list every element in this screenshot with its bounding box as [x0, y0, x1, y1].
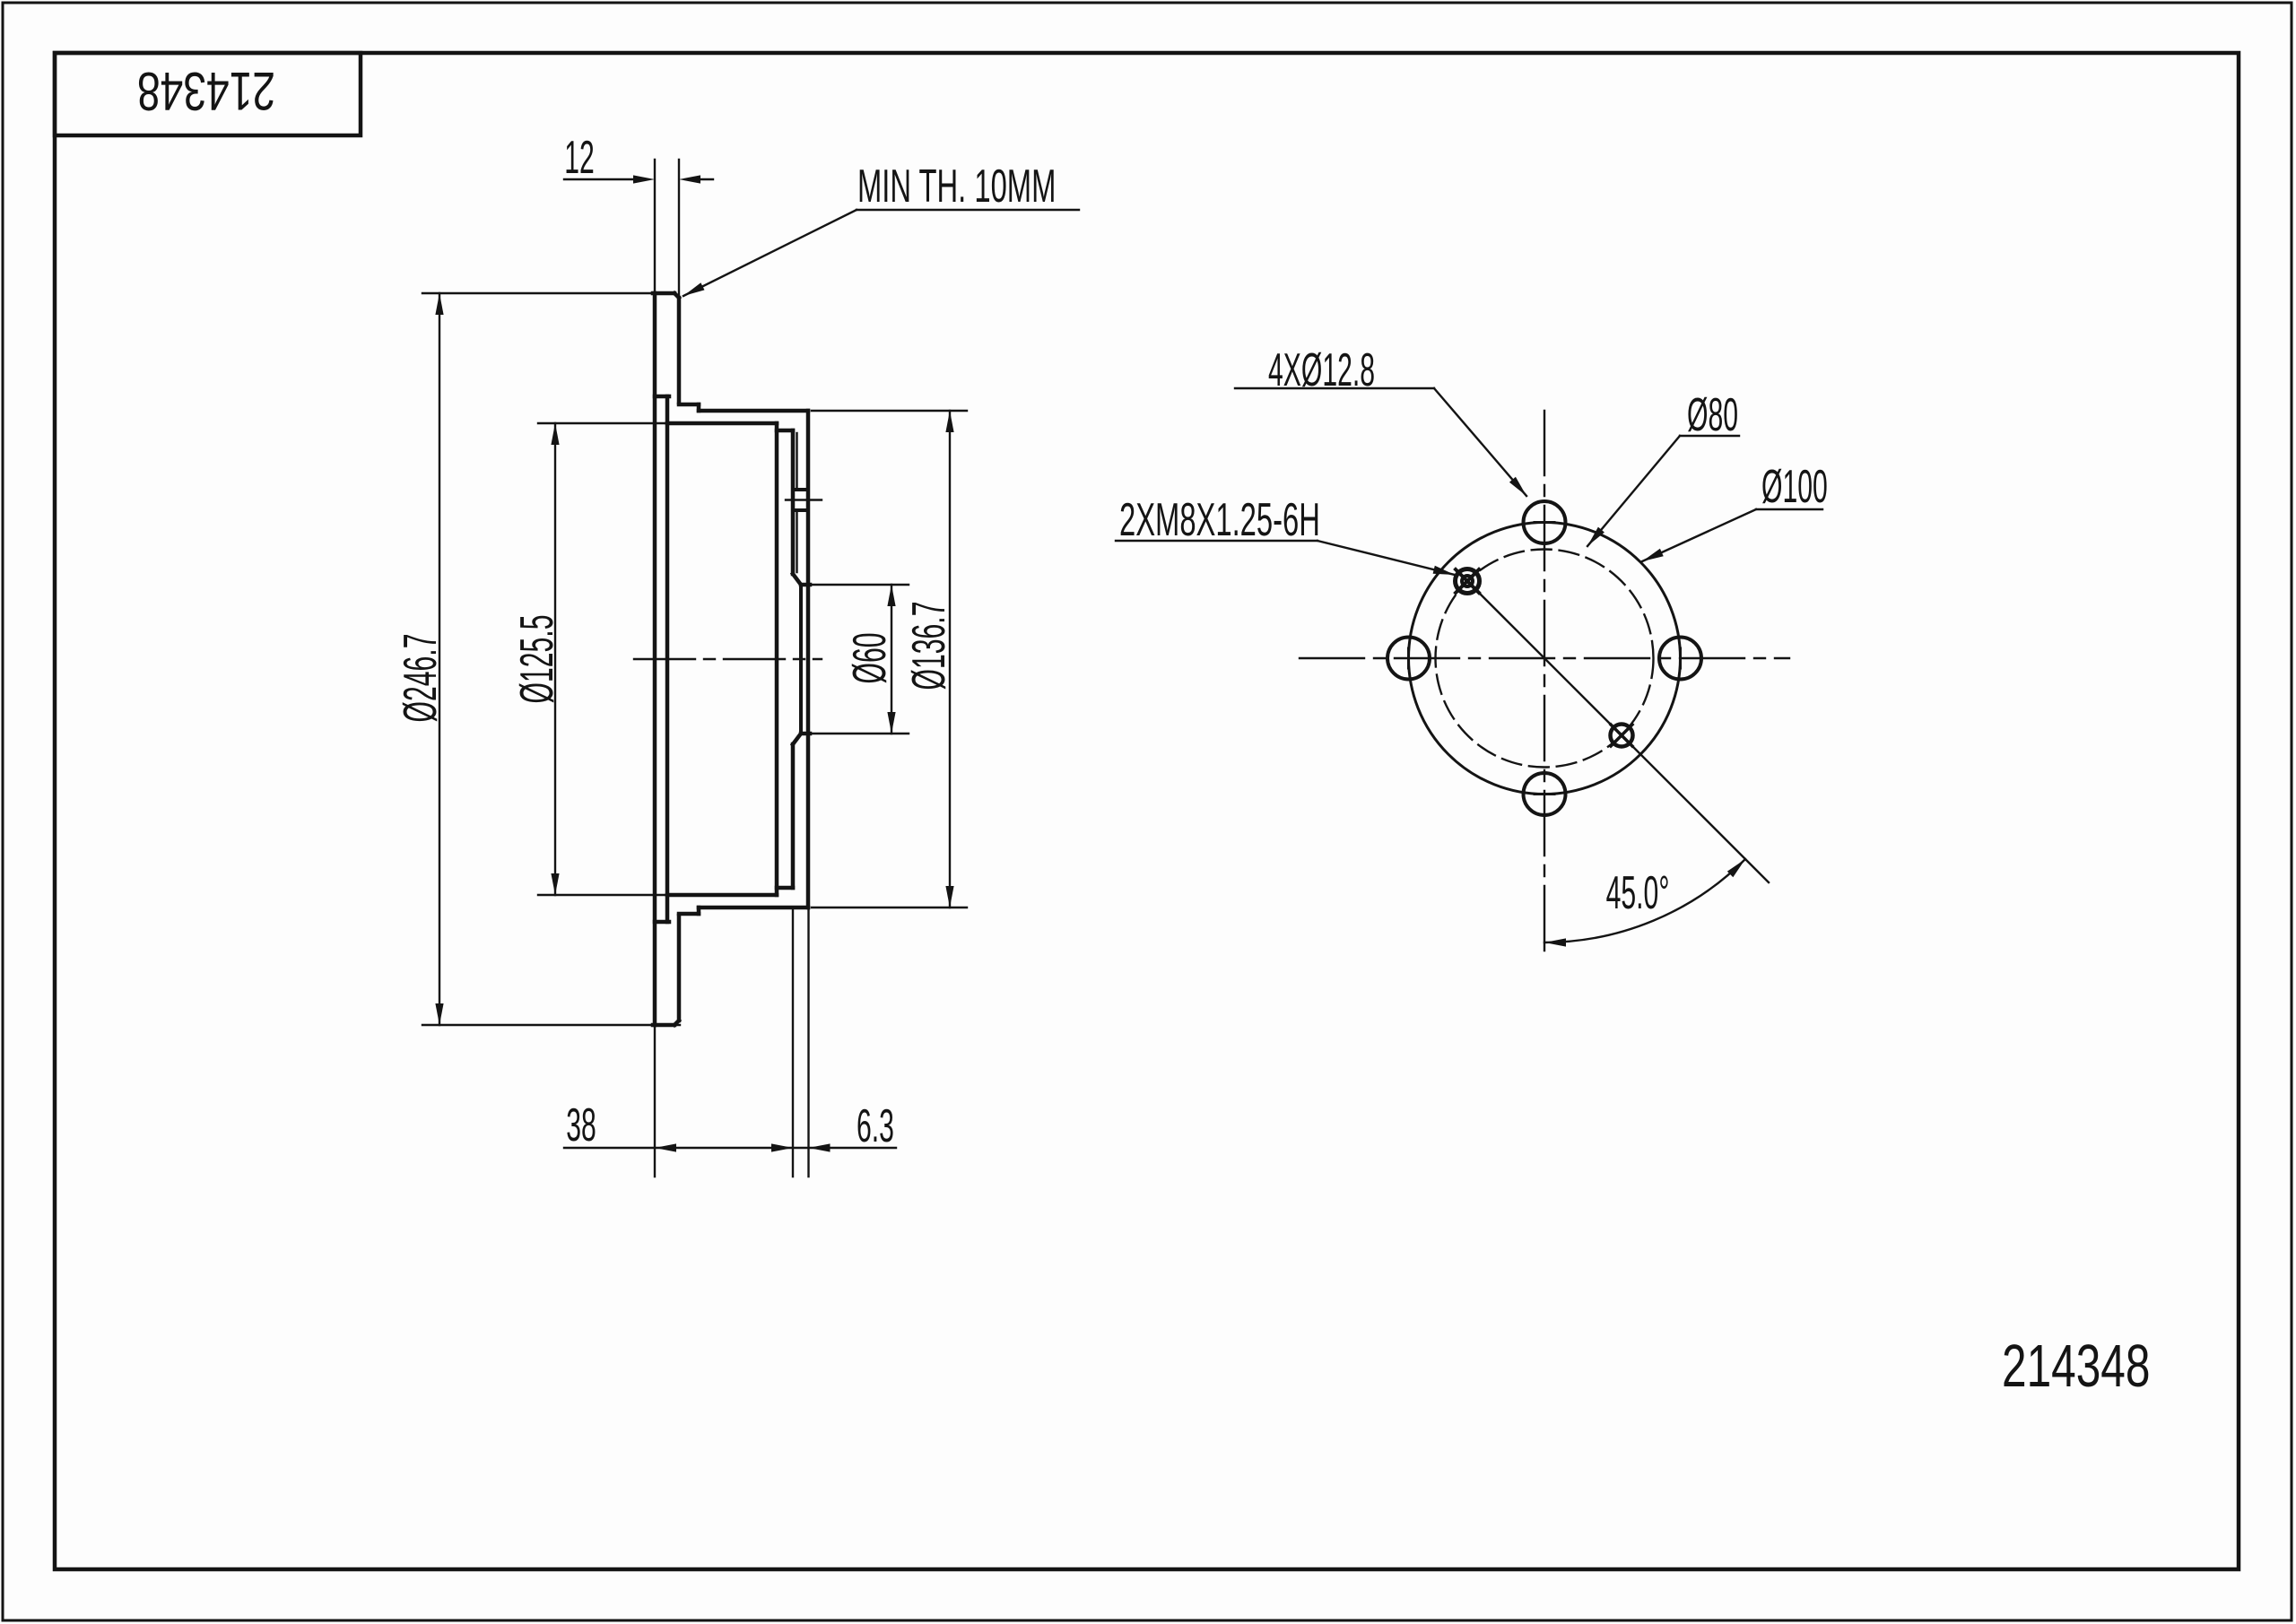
svg-text:Ø136.7: Ø136.7: [904, 602, 955, 690]
svg-text:6.3: 6.3: [857, 1101, 894, 1152]
svg-text:45.0°: 45.0°: [1606, 868, 1670, 919]
svg-text:214348: 214348: [2002, 1333, 2150, 1400]
svg-text:Ø246.7: Ø246.7: [396, 634, 447, 723]
svg-text:214348: 214348: [137, 61, 275, 120]
svg-text:Ø100: Ø100: [1761, 462, 1828, 513]
svg-text:2XM8X1.25-6H: 2XM8X1.25-6H: [1119, 495, 1320, 546]
svg-text:Ø125.5: Ø125.5: [512, 615, 563, 704]
svg-text:38: 38: [566, 1100, 596, 1151]
svg-text:Ø80: Ø80: [1687, 390, 1738, 441]
svg-text:Ø60: Ø60: [845, 632, 896, 683]
svg-text:12: 12: [564, 133, 595, 184]
svg-text:MIN TH. 10MM: MIN TH. 10MM: [857, 161, 1056, 213]
svg-text:4XØ12.8: 4XØ12.8: [1268, 345, 1375, 396]
